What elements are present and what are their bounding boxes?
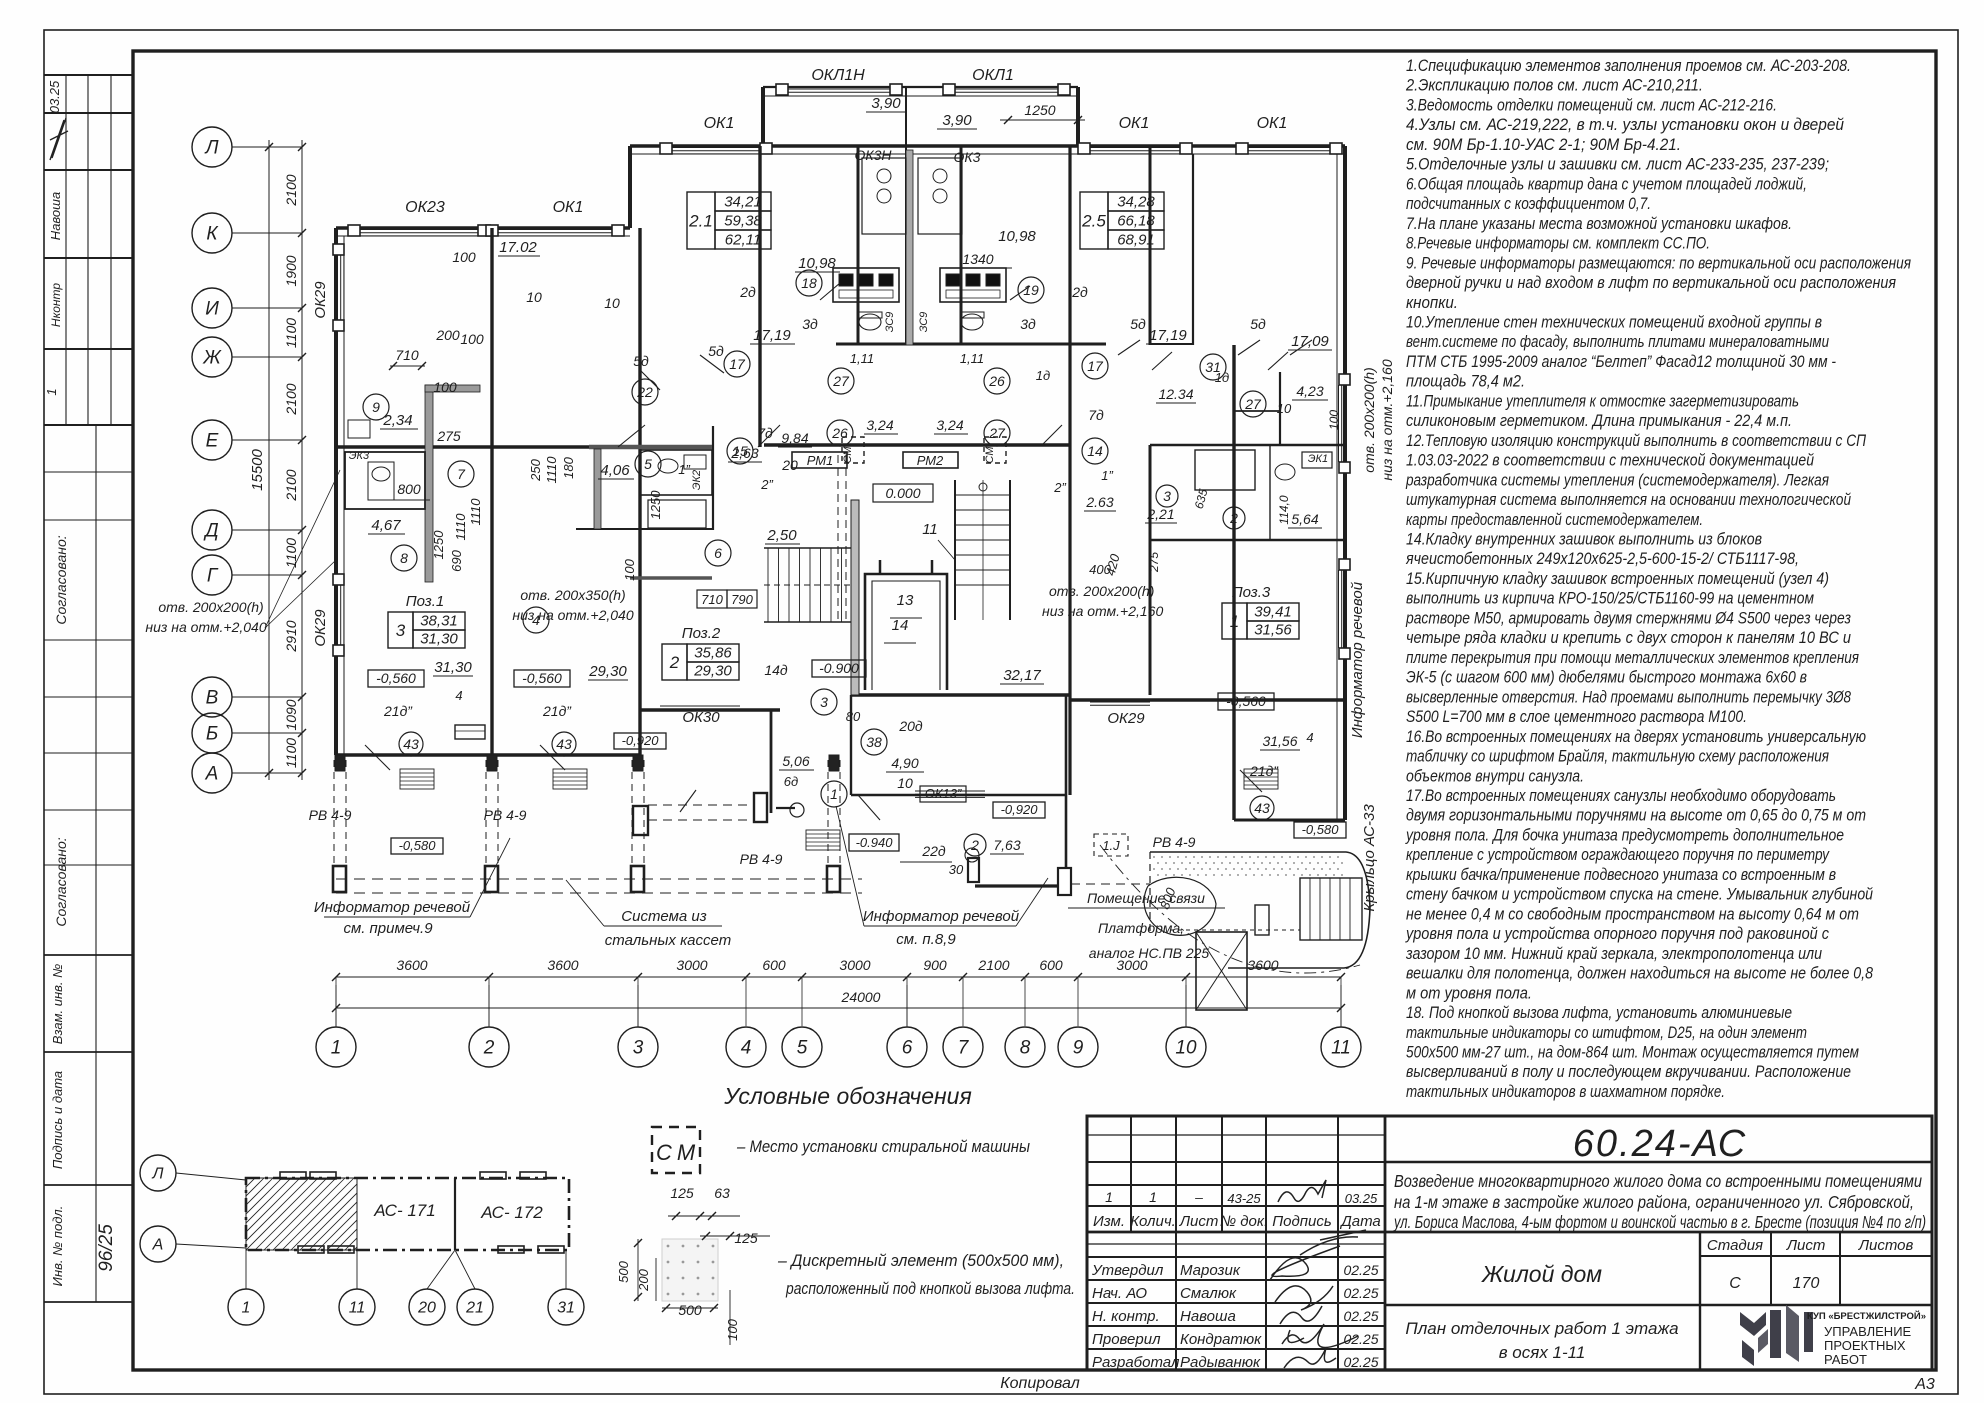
svg-text:1900: 1900 — [283, 255, 299, 286]
discrete element diagram — [662, 1239, 718, 1301]
svg-text:Крыльцо АС-33: Крыльцо АС-33 — [1361, 804, 1378, 912]
svg-text:2100: 2100 — [283, 469, 299, 501]
svg-text:2,21: 2,21 — [1146, 506, 1174, 522]
west wall — [334, 228, 338, 755]
svg-text:2.Экспликацию полов см. лист А: 2.Экспликацию полов см. лист АС-210,211. — [1405, 77, 1703, 95]
svg-text:03.25: 03.25 — [47, 80, 62, 113]
svg-text:4: 4 — [1306, 730, 1313, 745]
svg-text:ОК3: ОК3 — [954, 149, 981, 165]
svg-text:100: 100 — [1327, 410, 1341, 430]
svg-text:3,24: 3,24 — [936, 417, 963, 433]
svg-text:ОК29: ОК29 — [312, 609, 329, 647]
svg-text:вент.системе по фасаду, выполн: вент.системе по фасаду, выполнить плитам… — [1406, 333, 1829, 351]
svg-text:Ж: Ж — [202, 348, 222, 369]
svg-text:3,90: 3,90 — [871, 95, 901, 112]
svg-text:15500: 15500 — [249, 448, 266, 490]
bathroom left — [345, 452, 425, 509]
svg-text:11: 11 — [1331, 1038, 1351, 1059]
svg-text:крепление с устройством огражд: крепление с устройством ограждающего пор… — [1406, 846, 1830, 864]
svg-text:43: 43 — [1254, 800, 1270, 816]
svg-text:31,30: 31,30 — [420, 631, 458, 648]
svg-text:125: 125 — [670, 1185, 694, 1201]
svg-text:7: 7 — [958, 1038, 970, 1059]
svg-text:17,19: 17,19 — [753, 327, 791, 344]
svg-text:С: С — [656, 1140, 672, 1165]
porch dashed lines — [333, 760, 335, 892]
svg-text:9: 9 — [372, 399, 380, 415]
svg-text:27: 27 — [1244, 396, 1262, 412]
svg-text:– Дискретный элемент (500х500: – Дискретный элемент (500х500 мм), — [777, 1252, 1064, 1270]
svg-text:34,28: 34,28 — [1117, 194, 1155, 211]
svg-text:Поз.1: Поз.1 — [406, 593, 445, 610]
stair core — [764, 547, 851, 549]
svg-text:Л: Л — [152, 1166, 164, 1183]
svg-text:кнопки.: кнопки. — [1406, 294, 1458, 312]
svg-text:плите перекрытия при помощи ме: плите перекрытия при помощи металлически… — [1406, 649, 1859, 667]
svg-text:Изм.: Изм. — [1093, 1213, 1125, 1230]
svg-text:3: 3 — [820, 694, 828, 710]
svg-text:–: – — [1194, 1189, 1203, 1205]
svg-text:Разработал: Разработал — [1092, 1354, 1180, 1371]
svg-text:6: 6 — [714, 545, 722, 561]
svg-text:2: 2 — [483, 1038, 495, 1059]
svg-text:20: 20 — [417, 1300, 436, 1317]
svg-text:3000: 3000 — [676, 957, 707, 973]
svg-text:1100: 1100 — [283, 738, 299, 768]
svg-text:Нач. АО: Нач. АО — [1092, 1285, 1147, 1302]
svg-text:10: 10 — [1175, 1038, 1197, 1059]
svg-text:02.25: 02.25 — [1343, 1331, 1378, 1347]
svg-text:СМ: СМ — [842, 446, 854, 464]
svg-text:3д: 3д — [1020, 316, 1036, 332]
sidebar stamp table — [44, 74, 133, 76]
svg-text:карты предоставленной системод: карты предоставленной системодержателем. — [1406, 511, 1703, 529]
key plan — [246, 1178, 569, 1250]
svg-text:двумя горизонтальными поручням: двумя горизонтальными поручнями на высот… — [1406, 807, 1866, 825]
svg-text:275: 275 — [1147, 552, 1161, 573]
svg-text:02.25: 02.25 — [1343, 1262, 1378, 1278]
svg-text:И: И — [205, 299, 219, 320]
svg-text:275: 275 — [436, 428, 461, 444]
svg-text:500х500 мм-27 шт., на дом-864: 500х500 мм-27 шт., на дом-864 шт. Монтаж… — [1406, 1044, 1859, 1062]
svg-text:см. примеч.9: см. примеч.9 — [343, 920, 433, 937]
svg-text:34,21: 34,21 — [724, 194, 762, 211]
svg-text:2.1: 2.1 — [688, 212, 713, 231]
kitchen blocks — [833, 268, 899, 302]
svg-text:ОК23: ОК23 — [405, 199, 445, 216]
svg-text:100: 100 — [452, 249, 476, 265]
svg-text:УПРАВЛЕНИЕ: УПРАВЛЕНИЕ — [1824, 1324, 1912, 1339]
svg-text:4: 4 — [532, 612, 540, 628]
svg-text:стену бачком и устройством спу: стену бачком и устройством спуска на сте… — [1406, 886, 1873, 904]
svg-text:-0,560: -0,560 — [376, 670, 416, 686]
svg-text:17: 17 — [729, 356, 746, 372]
bathroom right — [1195, 450, 1255, 490]
svg-text:11.Примыкание утеплителя к отм: 11.Примыкание утеплителя к отмостке заге… — [1406, 392, 1799, 410]
svg-text:200: 200 — [636, 1268, 651, 1291]
svg-text:штукатурная система выполняетс: штукатурная система выполняется на основ… — [1406, 491, 1851, 509]
svg-text:Кондратюк: Кондратюк — [1180, 1331, 1262, 1348]
svg-text:низ на отм.+2,040: низ на отм.+2,040 — [512, 607, 633, 623]
svg-text:Листов: Листов — [1858, 1237, 1914, 1254]
svg-text:в осях 1-11: в осях 1-11 — [1499, 1343, 1586, 1362]
svg-text:4,23: 4,23 — [1296, 383, 1323, 399]
svg-text:27: 27 — [988, 425, 1006, 441]
svg-text:35,86: 35,86 — [694, 645, 732, 662]
svg-text:180: 180 — [561, 456, 576, 478]
svg-text:2д: 2д — [1071, 284, 1088, 300]
svg-text:1.J: 1.J — [1102, 838, 1120, 853]
svg-text:63: 63 — [714, 1185, 730, 1201]
svg-text:выполнить из кирпича КРО-150/2: выполнить из кирпича КРО-150/25/СТБ1160-… — [1406, 590, 1814, 608]
svg-text:3: 3 — [396, 621, 406, 640]
svg-text:5д: 5д — [633, 353, 649, 369]
svg-text:12.Тепловую изоляцию конструкц: 12.Тепловую изоляцию конструкций выполни… — [1406, 432, 1866, 450]
svg-text:38: 38 — [866, 734, 882, 750]
svg-text:Система из: Система из — [621, 908, 706, 925]
svg-text:7д: 7д — [1088, 407, 1104, 423]
svg-text:Возведение многоквартирного жи: Возведение многоквартирного жилого дома … — [1394, 1171, 1922, 1191]
svg-text:17,19: 17,19 — [1149, 327, 1187, 344]
svg-text:уровня пола и устройства опорн: уровня пола и устройства опорного поручн… — [1405, 925, 1830, 943]
svg-text:59,38: 59,38 — [724, 213, 762, 230]
svg-text:ЭК2: ЭК2 — [691, 470, 703, 490]
svg-text:7: 7 — [457, 466, 466, 482]
svg-text:ОК1: ОК1 — [1257, 115, 1288, 132]
logo — [1740, 1305, 1813, 1366]
svg-text:2100: 2100 — [283, 174, 299, 206]
svg-text:14.Кладку внутренних зашивок в: 14.Кладку внутренних зашивок выполнить и… — [1406, 531, 1762, 549]
bottom dimension chain — [336, 976, 1341, 978]
svg-text:38,31: 38,31 — [420, 613, 458, 630]
svg-text:5.Отделочные узлы и зашивки см: 5.Отделочные узлы и зашивки см. лист АС-… — [1406, 156, 1829, 174]
svg-text:Инв. № подл.: Инв. № подл. — [50, 1206, 65, 1287]
svg-text:800: 800 — [397, 481, 421, 497]
svg-text:М: М — [677, 1140, 696, 1165]
svg-text:5,64: 5,64 — [1291, 511, 1318, 527]
svg-text:Б: Б — [206, 724, 218, 745]
svg-text:низ на отм.+2,160: низ на отм.+2,160 — [1379, 359, 1395, 480]
svg-text:ЭК3: ЭК3 — [349, 450, 370, 462]
svg-text:3.Ведомость отделки помещений: 3.Ведомость отделки помещений см. лист А… — [1406, 97, 1777, 115]
svg-text:ПТМ СТБ 1995-2009 аналог “Белт: ПТМ СТБ 1995-2009 аналог “Белтеп” Фасад1… — [1406, 353, 1836, 371]
svg-text:дверной ручки и над входом в л: дверной ручки и над входом в лифт по вер… — [1406, 274, 1896, 292]
svg-text:Д: Д — [203, 521, 218, 542]
svg-text:1д: 1д — [1215, 370, 1229, 385]
svg-text:отв. 200х200(h): отв. 200х200(h) — [158, 599, 263, 615]
svg-text:4,67: 4,67 — [371, 517, 401, 534]
svg-text:15: 15 — [732, 443, 748, 459]
svg-text:разработчика системы утепления: разработчика системы утепления (системод… — [1405, 471, 1829, 489]
svg-text:66,18: 66,18 — [1117, 213, 1155, 230]
svg-text:тактильные индикаторы со штифт: тактильные индикаторы со штифтом, D25, н… — [1406, 1024, 1807, 1042]
svg-text:2д: 2д — [739, 284, 756, 300]
svg-text:РМ1: РМ1 — [807, 453, 834, 468]
svg-text:1: 1 — [242, 1300, 251, 1317]
svg-text:1110: 1110 — [453, 513, 468, 541]
svg-text:24000: 24000 — [841, 989, 881, 1005]
svg-text:2,50: 2,50 — [766, 527, 797, 544]
svg-text:170: 170 — [1793, 1275, 1820, 1292]
svg-text:10: 10 — [604, 295, 620, 311]
svg-text:ЗС9: ЗС9 — [884, 312, 896, 333]
svg-text:20д: 20д — [898, 718, 923, 734]
svg-text:26: 26 — [988, 373, 1005, 389]
svg-text:ул. Бориса Маслова, 4-ым форто: ул. Бориса Маслова, 4-ым фортом и воинск… — [1393, 1212, 1926, 1232]
svg-text:13: 13 — [897, 592, 914, 609]
svg-text:8: 8 — [400, 550, 408, 566]
bathroom center — [640, 450, 712, 495]
svg-text:низ на отм.+2,040: низ на отм.+2,040 — [145, 619, 266, 635]
svg-text:Стадия: Стадия — [1707, 1237, 1763, 1254]
svg-text:710: 710 — [395, 347, 419, 363]
svg-text:02.25: 02.25 — [1343, 1285, 1378, 1301]
svg-text:3600: 3600 — [547, 957, 578, 973]
svg-text:5,06: 5,06 — [782, 753, 809, 769]
svg-text:0.000: 0.000 — [885, 485, 920, 501]
svg-text:объектов внутри санузла.: объектов внутри санузла. — [1406, 767, 1584, 785]
svg-text:см. 90М Бр-1.10-УАС 2-1; 90М Б: см. 90М Бр-1.10-УАС 2-1; 90М Бр-4.21. — [1406, 136, 1681, 154]
svg-text:1.Спецификацию элементов запол: 1.Спецификацию элементов заполнения прое… — [1406, 57, 1851, 75]
svg-text:3,90: 3,90 — [942, 112, 972, 129]
porch right — [1150, 852, 1370, 968]
svg-text:расположенный под кнопкой вызо: расположенный под кнопкой вызова лифта. — [785, 1280, 1075, 1298]
svg-text:на 1-м этаже в застройке жилог: на 1-м этаже в застройке жилого района, … — [1394, 1192, 1914, 1212]
svg-text:2100: 2100 — [977, 957, 1009, 973]
svg-text:Согласовано:: Согласовано: — [53, 837, 69, 926]
svg-text:АС- 171: АС- 171 — [373, 1201, 435, 1220]
svg-text:5: 5 — [797, 1038, 808, 1059]
svg-text:В: В — [206, 688, 219, 709]
svg-text:РВ 4-9: РВ 4-9 — [484, 807, 527, 823]
svg-text:см. п.8,9: см. п.8,9 — [896, 931, 956, 948]
hatched partitions — [425, 385, 433, 582]
svg-text:1110: 1110 — [468, 498, 483, 526]
svg-text:1: 1 — [830, 786, 838, 802]
svg-text:ОК29: ОК29 — [312, 281, 329, 319]
svg-text:2.63: 2.63 — [1085, 494, 1113, 510]
svg-text:Лист: Лист — [1786, 1237, 1826, 1254]
key plan axis bubbles — [140, 1155, 176, 1191]
svg-text:РВ 4-9: РВ 4-9 — [309, 807, 352, 823]
svg-text:14: 14 — [892, 617, 909, 634]
svg-text:21: 21 — [465, 1300, 484, 1317]
svg-text:7.На плане указаны места возмо: 7.На плане указаны места возможной устан… — [1406, 215, 1792, 233]
svg-text:710: 710 — [701, 592, 723, 607]
svg-text:Подпись: Подпись — [1272, 1213, 1332, 1230]
svg-text:крышки бачка/применение подвес: крышки бачка/применение подвесного унита… — [1406, 866, 1836, 884]
svg-text:100: 100 — [433, 379, 457, 395]
svg-text:-0.900: -0.900 — [819, 660, 859, 676]
svg-text:площадь 78,4 м2.: площадь 78,4 м2. — [1406, 373, 1525, 391]
svg-text:4,90: 4,90 — [891, 755, 918, 771]
svg-text:18. Под кнопкой вызова лифта,: 18. Под кнопкой вызова лифта, установить… — [1406, 1004, 1792, 1022]
svg-text:12.34: 12.34 — [1158, 386, 1193, 402]
svg-text:Нконтр: Нконтр — [49, 283, 63, 327]
svg-text:отв. 200х200(h): отв. 200х200(h) — [1049, 583, 1154, 599]
svg-text:31,56: 31,56 — [1254, 622, 1292, 639]
svg-text:ОК30: ОК30 — [682, 709, 720, 726]
svg-text:не менее 0,4 м со свободным пр: не менее 0,4 м со свободным пространство… — [1406, 905, 1859, 923]
svg-text:ПРОЕКТНЫХ: ПРОЕКТНЫХ — [1824, 1338, 1906, 1353]
svg-text:РВ 4-9: РВ 4-9 — [1153, 834, 1196, 850]
svg-text:6д: 6д — [784, 774, 798, 789]
svg-text:96/25: 96/25 — [96, 1224, 117, 1272]
svg-text:43: 43 — [556, 736, 572, 752]
svg-text:4.Узлы см. АС-219,222, в т.ч.: 4.Узлы см. АС-219,222, в т.ч. узлы устан… — [1406, 116, 1844, 134]
svg-text:А3: А3 — [1914, 1376, 1935, 1393]
svg-text:Дата: Дата — [1339, 1213, 1381, 1230]
svg-text:Помещение связи: Помещение связи — [1087, 890, 1205, 906]
svg-text:№ док.: № док. — [1220, 1213, 1268, 1230]
svg-text:18: 18 — [801, 275, 817, 291]
svg-text:С: С — [1729, 1275, 1741, 1292]
svg-text:отв. 200х200(h): отв. 200х200(h) — [1361, 367, 1377, 472]
svg-text:– Место установки стиральной м: – Место установки стиральной машины — [736, 1138, 1030, 1156]
svg-text:1,11: 1,11 — [850, 351, 874, 366]
svg-text:2910: 2910 — [283, 620, 299, 652]
svg-text:1100: 1100 — [283, 538, 299, 568]
svg-text:ОКЛ1: ОКЛ1 — [972, 67, 1014, 84]
svg-text:5д: 5д — [1250, 316, 1266, 332]
svg-text:30: 30 — [949, 862, 964, 877]
svg-text:РМ2: РМ2 — [917, 453, 944, 468]
svg-text:-0.940: -0.940 — [856, 835, 894, 850]
svg-text:Подпись и дата: Подпись и дата — [50, 1071, 65, 1169]
svg-text:Жилой дом: Жилой дом — [1481, 1261, 1602, 1287]
svg-text:-0,920: -0,920 — [622, 733, 660, 748]
svg-text:1д: 1д — [1036, 368, 1050, 383]
svg-text:1: 1 — [331, 1038, 342, 1059]
svg-text:21д”: 21д” — [542, 703, 572, 719]
svg-text:29,30: 29,30 — [693, 663, 732, 680]
svg-text:табличку со шрифтом Брайля, та: табличку со шрифтом Брайля, тактильную с… — [1406, 748, 1829, 766]
east wall — [1343, 146, 1347, 820]
svg-text:1: 1 — [1149, 1189, 1157, 1205]
svg-text:20: 20 — [781, 457, 798, 473]
svg-text:ОК1: ОК1 — [1119, 115, 1150, 132]
svg-text:31: 31 — [557, 1300, 575, 1317]
svg-text:Утвердил: Утвердил — [1091, 1262, 1164, 1279]
svg-text:1110: 1110 — [544, 456, 559, 484]
svg-text:62,11: 62,11 — [725, 232, 761, 249]
svg-text:1090: 1090 — [283, 699, 299, 730]
svg-text:РАБОТ: РАБОТ — [1824, 1352, 1867, 1367]
svg-text:Радыванюк: Радыванюк — [1180, 1354, 1261, 1371]
svg-text:16.Во встроенных помещениях на: 16.Во встроенных помещениях на дверях ус… — [1406, 728, 1866, 746]
svg-text:м от уровня пола.: м от уровня пола. — [1406, 984, 1532, 1002]
svg-text:уровня пола. Для бочка унитаза: уровня пола. Для бочка унитаза предусмот… — [1405, 827, 1844, 845]
area table 2.1 — [687, 192, 715, 249]
svg-text:1100: 1100 — [283, 318, 299, 348]
svg-text:зазором 10 мм. Нижний край зер: зазором 10 мм. Нижний край зеркала, элек… — [1405, 945, 1822, 963]
svg-text:19: 19 — [1023, 282, 1039, 298]
svg-text:26: 26 — [831, 425, 848, 441]
svg-text:Проверил: Проверил — [1092, 1331, 1161, 1348]
svg-text:7д: 7д — [757, 425, 773, 441]
svg-text:5д: 5д — [708, 343, 724, 359]
svg-text:Навоша: Навоша — [1180, 1308, 1236, 1325]
svg-text:5д: 5д — [1130, 316, 1146, 332]
svg-text:2.5: 2.5 — [1081, 212, 1106, 231]
svg-text:1250: 1250 — [1024, 102, 1055, 118]
svg-text:ЭК1: ЭК1 — [1308, 453, 1328, 465]
north wall — [630, 144, 1345, 147]
svg-text:ЭК-5 (с шагом 600 мм) дюбелями: ЭК-5 (с шагом 600 мм) дюбелями быстрого … — [1406, 669, 1807, 687]
svg-text:8: 8 — [1020, 1038, 1031, 1059]
svg-text:1”: 1” — [678, 462, 690, 477]
title block — [1087, 1116, 1932, 1370]
svg-text:43: 43 — [403, 736, 419, 752]
svg-text:9,84: 9,84 — [781, 430, 808, 446]
svg-text:31,30: 31,30 — [434, 659, 472, 676]
svg-text:Г: Г — [207, 566, 219, 587]
svg-text:9. Речевые информаторы размеща: 9. Речевые информаторы размещаются: по в… — [1406, 254, 1911, 272]
svg-text:План отделочных работ 1 этажа: План отделочных работ 1 этажа — [1405, 1319, 1678, 1338]
svg-text:Согласовано:: Согласовано: — [53, 535, 69, 624]
svg-text:А: А — [205, 764, 219, 785]
svg-text:Колич.: Колич. — [1130, 1213, 1176, 1230]
svg-text:31,56: 31,56 — [1262, 733, 1297, 749]
svg-text:600: 600 — [762, 957, 786, 973]
svg-text:4,06: 4,06 — [600, 462, 630, 479]
svg-text:3600: 3600 — [396, 957, 427, 973]
svg-text:стальных кассет: стальных кассет — [605, 932, 731, 949]
svg-text:3д: 3д — [802, 316, 818, 332]
area table 2.5 — [1080, 192, 1108, 249]
bay north wall — [763, 86, 1078, 88]
svg-text:22д: 22д — [921, 843, 946, 859]
svg-text:вешалки для полотенца, должен: вешалки для полотенца, должен находиться… — [1406, 965, 1874, 983]
svg-text:600: 600 — [1039, 957, 1063, 973]
interior walls — [490, 228, 493, 755]
svg-text:СМ: СМ — [984, 446, 996, 464]
svg-text:Н. контр.: Н. контр. — [1092, 1308, 1160, 1325]
svg-text:27: 27 — [832, 373, 850, 389]
svg-text:-0,580: -0,580 — [1302, 822, 1340, 837]
svg-text:ЗС9: ЗС9 — [918, 312, 930, 333]
svg-text:ОК1: ОК1 — [553, 199, 584, 216]
svg-text:80: 80 — [846, 709, 861, 724]
svg-text:10.Утепление стен технических: 10.Утепление стен технических помещений … — [1406, 314, 1822, 332]
svg-text:200: 200 — [435, 327, 460, 343]
svg-text:10,98: 10,98 — [798, 255, 836, 272]
svg-text:100: 100 — [725, 1318, 740, 1340]
svg-text:Е: Е — [206, 431, 219, 452]
svg-text:68,91: 68,91 — [1117, 232, 1155, 249]
svg-text:9: 9 — [1073, 1038, 1084, 1059]
svg-text:Марозик: Марозик — [1180, 1262, 1241, 1279]
svg-text:АС- 172: АС- 172 — [480, 1203, 543, 1222]
svg-text:КУП «БРЕСТЖИЛСТРОЙ»: КУП «БРЕСТЖИЛСТРОЙ» — [1807, 1310, 1926, 1322]
svg-text:1250: 1250 — [431, 530, 446, 560]
svg-text:10: 10 — [897, 775, 913, 791]
svg-text:низ на отм.+2,160: низ на отм.+2,160 — [1042, 603, 1163, 619]
svg-text:11: 11 — [349, 1300, 366, 1317]
svg-text:114,0: 114,0 — [1277, 495, 1291, 524]
svg-text:силиконовым герметиком. Длина: силиконовым герметиком. Длина примыкания… — [1406, 412, 1792, 430]
svg-text:Взам. инв. №: Взам. инв. № — [50, 964, 65, 1044]
svg-text:21д”: 21д” — [1249, 763, 1279, 779]
svg-text:21д”: 21д” — [383, 703, 413, 719]
svg-text:4: 4 — [455, 688, 462, 703]
svg-text:S500 L=700 мм в слое цементног: S500 L=700 мм в слое цементного раствора… — [1406, 708, 1747, 726]
svg-text:8.Речевые информаторы см. комп: 8.Речевые информаторы см. комплект СС.ПО… — [1406, 235, 1710, 253]
svg-text:Лист: Лист — [1179, 1213, 1219, 1230]
svg-text:3,24: 3,24 — [866, 417, 893, 433]
svg-text:тактильных индикаторов в шахма: тактильных индикаторов в шахматном поряд… — [1406, 1083, 1725, 1101]
svg-text:690: 690 — [449, 549, 464, 571]
